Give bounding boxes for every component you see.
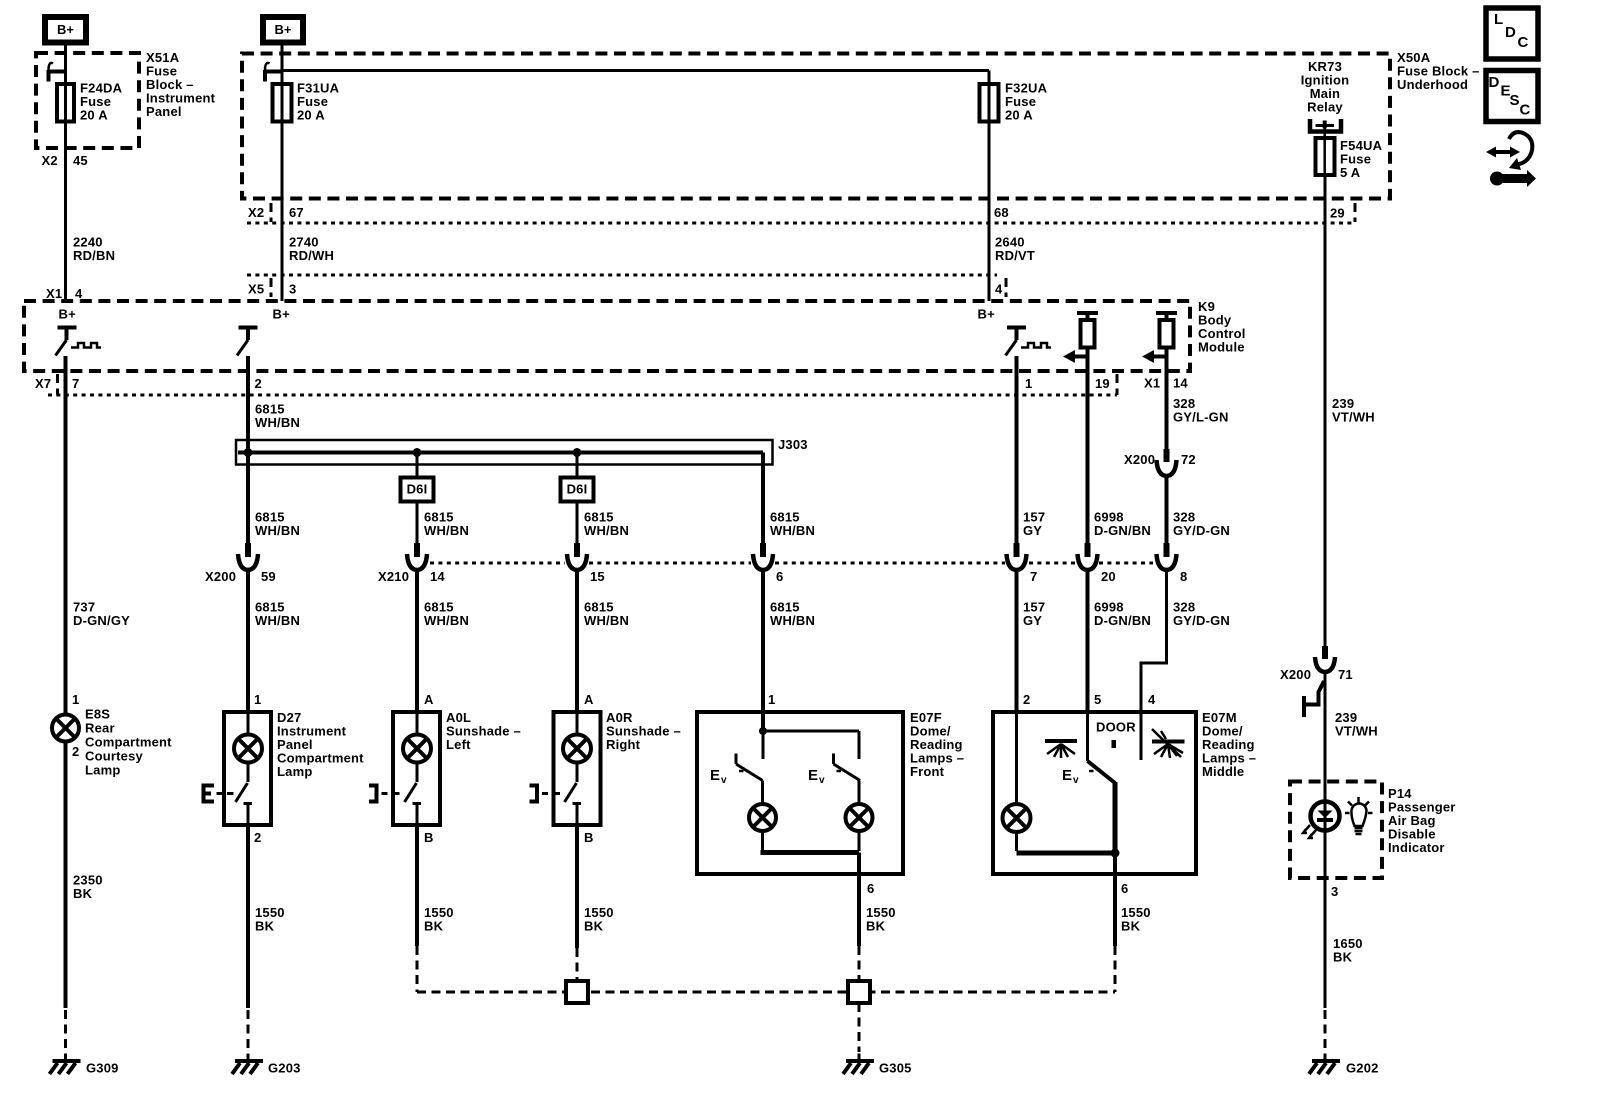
svg-text:68: 68 bbox=[994, 205, 1009, 220]
svg-text:6: 6 bbox=[776, 569, 783, 584]
wire col5 J303 right end down to connector pin 6 bbox=[761, 453, 765, 544]
wire label 1550 BK col3 bbox=[424, 905, 454, 934]
door-jamb bracket symbol at A0R bbox=[530, 786, 561, 802]
E07M pin 4 stub wire bbox=[1140, 712, 1143, 760]
svg-text:20 A: 20 A bbox=[297, 108, 325, 123]
svg-text:D: D bbox=[1505, 24, 1516, 41]
svg-text:E: E bbox=[1062, 767, 1072, 784]
svg-text:2: 2 bbox=[1023, 692, 1030, 707]
E07M illumination rays icon left bbox=[1045, 741, 1077, 758]
wire col9: F54UA to X200-71, circuit 239 bbox=[1324, 175, 1327, 647]
svg-text:E: E bbox=[710, 767, 720, 784]
switch inside A0R bbox=[565, 763, 582, 826]
wire label 2640 RD/VT bbox=[995, 235, 1035, 264]
svg-text:1: 1 bbox=[1025, 376, 1032, 391]
connector row X2: labels 67 68 29 with ticks bbox=[248, 203, 1355, 222]
labels X200 72 bbox=[1124, 452, 1196, 467]
wire col4 connector to lamp A0R bbox=[575, 570, 579, 712]
svg-text:RD/VT: RD/VT bbox=[995, 248, 1035, 263]
svg-text:G202: G202 bbox=[1346, 1061, 1379, 1076]
wire label 1550 BK col2 bbox=[255, 905, 285, 934]
inline connector pin 20 bbox=[1078, 543, 1098, 570]
svg-text:45: 45 bbox=[73, 153, 88, 168]
svg-text:59: 59 bbox=[261, 569, 276, 584]
E07F left door switch Ev bbox=[710, 754, 763, 787]
label A0R Sunshade Right bbox=[606, 710, 681, 752]
svg-text:GY: GY bbox=[1023, 613, 1042, 628]
connector hook in X51A bbox=[49, 63, 66, 82]
wire label 6998 D-GN/BN col7 lower bbox=[1094, 600, 1151, 629]
svg-text:X2: X2 bbox=[42, 153, 58, 168]
switch inside D27 bbox=[236, 763, 253, 826]
ground G203 bbox=[232, 1054, 263, 1075]
wire col8 BCM pin X1-14 to X200-72, circuit 328 bbox=[1165, 371, 1169, 449]
dotted connector line X7 row bbox=[48, 394, 1117, 397]
svg-text:Front: Front bbox=[910, 764, 945, 779]
svg-text:4: 4 bbox=[995, 282, 1003, 297]
wire label 157 GY col6 lower bbox=[1023, 600, 1045, 629]
label K9 Body Control Module bbox=[1198, 299, 1246, 355]
dotted inline-connector row bbox=[430, 562, 1153, 565]
svg-text:v: v bbox=[1073, 775, 1079, 786]
wire label 737 D-GN/GY bbox=[73, 600, 130, 629]
svg-text:WH/BN: WH/BN bbox=[584, 613, 629, 628]
pin labels X2 45 bbox=[42, 153, 88, 168]
svg-text:1: 1 bbox=[768, 692, 775, 707]
E07F bottom bus to pin 6 bbox=[761, 853, 860, 886]
wire label 6815 WH/BN col3 lower bbox=[424, 600, 469, 629]
lamp box D27 bbox=[224, 712, 271, 825]
svg-text:WH/BN: WH/BN bbox=[770, 523, 815, 538]
svg-text:BK: BK bbox=[424, 919, 444, 934]
wire col4 J303 tap to D6I bbox=[576, 453, 579, 478]
svg-text:WH/BN: WH/BN bbox=[424, 523, 469, 538]
dotted connector line X2 row bbox=[247, 222, 1354, 225]
svg-text:BK: BK bbox=[255, 919, 275, 934]
svg-text:14: 14 bbox=[1173, 376, 1188, 391]
E07M pin 6 exit wire bbox=[1113, 853, 1117, 885]
inline connector X200-72 bbox=[1157, 449, 1177, 476]
ground G305 bbox=[843, 1054, 874, 1075]
fuse F32UA bbox=[980, 84, 999, 122]
junction square col4 on ground bus bbox=[566, 981, 588, 1003]
labels X200 59 bbox=[205, 569, 276, 584]
label X50A Fuse Block - Underhood bbox=[1397, 50, 1480, 92]
svg-text:v: v bbox=[721, 775, 727, 786]
svg-text:GY: GY bbox=[1023, 523, 1042, 538]
svg-text:X200: X200 bbox=[205, 569, 236, 584]
svg-text:Right: Right bbox=[606, 737, 641, 752]
svg-text:G203: G203 bbox=[268, 1061, 301, 1076]
svg-text:8: 8 bbox=[1180, 569, 1187, 584]
svg-text:GY/D-GN: GY/D-GN bbox=[1173, 613, 1230, 628]
E07M bottom bus and node bbox=[1017, 849, 1120, 858]
labels X210 14 bbox=[378, 569, 445, 584]
relay KR73 contact symbol bbox=[1310, 119, 1341, 132]
wire label 1650 BK col9 bbox=[1333, 936, 1363, 965]
wire label 6815 WH/BN col2 lower bbox=[255, 600, 300, 629]
fuse F31UA bbox=[273, 84, 292, 122]
svg-text:Left: Left bbox=[446, 737, 471, 752]
wire col5 E07F to ground, circuit 1550 bbox=[857, 885, 861, 946]
svg-text:19: 19 bbox=[1095, 376, 1110, 391]
BCM current-source driver pin 19 bbox=[1063, 313, 1098, 371]
svg-text:Panel: Panel bbox=[146, 104, 182, 119]
label F54UA Fuse 5 A bbox=[1340, 138, 1383, 180]
lamp box A0L bbox=[393, 712, 440, 825]
E07M illumination rays icon right bbox=[1152, 729, 1185, 758]
door-jamb bracket symbol at A0L bbox=[369, 786, 400, 802]
P14 bulb icon with rays bbox=[1345, 797, 1373, 834]
wire label 6815 WH/BN col5 mid bbox=[770, 510, 815, 539]
wire relay to fuse F54UA bbox=[1323, 128, 1326, 175]
svg-text:WH/BN: WH/BN bbox=[424, 613, 469, 628]
svg-text:Rear: Rear bbox=[85, 721, 115, 736]
svg-text:WH/BN: WH/BN bbox=[770, 613, 815, 628]
label E07F Dome Reading Lamps Front bbox=[910, 710, 964, 779]
label X51A Fuse Block - Instrument Panel bbox=[146, 50, 216, 119]
svg-text:BK: BK bbox=[1121, 919, 1141, 934]
wire label 2740 RD/WH bbox=[289, 235, 334, 264]
wire label 328 GY/D-GN col8 lower bbox=[1173, 600, 1230, 629]
dashed wire E07M to ground bus bbox=[1114, 946, 1117, 992]
wire label 328 GY/L-GN col8 upper bbox=[1173, 396, 1229, 425]
dashed wire col2 to ground bbox=[247, 1010, 250, 1052]
wire label 1550 BK col4 bbox=[584, 905, 614, 934]
E07M lamp bbox=[1003, 712, 1031, 851]
lamp assembly box E07F bbox=[697, 712, 903, 874]
wire col6 connector to E07M pin 2 bbox=[1015, 570, 1019, 712]
svg-text:X200: X200 bbox=[1124, 452, 1155, 467]
E07F right door switch Ev bbox=[808, 754, 860, 787]
wire label 239 VT/WH col9 lower bbox=[1335, 710, 1378, 739]
svg-text:G309: G309 bbox=[86, 1061, 119, 1076]
wire label 239 VT/WH col9 upper bbox=[1332, 396, 1375, 425]
svg-text:Relay: Relay bbox=[1307, 100, 1343, 115]
svg-text:5 A: 5 A bbox=[1340, 165, 1361, 180]
dashed wire col9 to ground bbox=[1324, 1010, 1327, 1052]
svg-text:D: D bbox=[1489, 74, 1500, 91]
label F24DA Fuse 20 A bbox=[80, 81, 123, 123]
dashed wire col3 down to ground bus bbox=[416, 946, 419, 992]
svg-text:A: A bbox=[584, 692, 594, 707]
wire col6: F32UA branch down to BCM pin X5-4, circuit 2640 bbox=[988, 71, 991, 302]
svg-text:67: 67 bbox=[289, 205, 304, 220]
svg-text:D6I: D6I bbox=[407, 482, 428, 497]
wire label 157 GY col6 mid bbox=[1023, 510, 1045, 539]
svg-text:D6I: D6I bbox=[567, 482, 588, 497]
svg-text:B+: B+ bbox=[273, 307, 291, 322]
svg-text:5: 5 bbox=[1094, 692, 1101, 707]
svg-text:3: 3 bbox=[1331, 884, 1338, 899]
svg-text:Module: Module bbox=[1198, 340, 1245, 355]
svg-text:Courtesy: Courtesy bbox=[85, 749, 144, 764]
E07M switch to bus thick wire bbox=[1113, 782, 1118, 853]
svg-text:71: 71 bbox=[1338, 667, 1353, 682]
indicator P14 dashed box bbox=[1290, 782, 1382, 879]
wire E07M to ground bus, circuit 1550 bbox=[1113, 885, 1117, 946]
svg-text:B+: B+ bbox=[978, 307, 996, 322]
svg-text:1: 1 bbox=[254, 692, 261, 707]
wire label 6815 WH/BN col4 lower bbox=[584, 600, 629, 629]
label relay KR73 Ignition Main Relay bbox=[1301, 59, 1350, 115]
svg-text:4: 4 bbox=[75, 286, 83, 301]
legend icon box LDC bbox=[1486, 8, 1538, 59]
fuse F54UA bbox=[1316, 138, 1335, 175]
svg-text:Underhood: Underhood bbox=[1397, 77, 1468, 92]
lamp symbol A0R bbox=[563, 712, 591, 763]
wire bus inside X50A to F32UA bbox=[282, 69, 989, 72]
dashed wire col1 to ground bbox=[64, 1010, 67, 1052]
wire col1: B+ to BCM pin X1-4, circuit 2240 bbox=[64, 46, 67, 302]
node dot J303 tap col3 bbox=[413, 448, 422, 457]
svg-text:X5: X5 bbox=[248, 282, 264, 297]
svg-text:BK: BK bbox=[1333, 950, 1353, 965]
svg-text:L: L bbox=[1494, 11, 1503, 28]
svg-text:20: 20 bbox=[1101, 569, 1116, 584]
svg-text:A: A bbox=[424, 692, 434, 707]
dashed wire col5 to junction square bbox=[858, 946, 861, 981]
svg-text:6: 6 bbox=[1121, 881, 1128, 896]
svg-text:J303: J303 bbox=[778, 437, 808, 452]
wire col7 BCM pin 19 to connector pin 20, circuit 6998 bbox=[1086, 371, 1090, 543]
BCM switch col6 with PTC squiggle bbox=[1006, 328, 1052, 372]
ground G202 bbox=[1309, 1054, 1340, 1075]
svg-text:X2: X2 bbox=[248, 205, 264, 220]
switch inside A0L bbox=[405, 763, 422, 826]
svg-text:X210: X210 bbox=[378, 569, 409, 584]
wire col9 X200-71 to P14 pin, circuit 239 bbox=[1324, 672, 1327, 800]
lamp E8S Rear Compartment Courtesy Lamp bbox=[52, 715, 79, 742]
lamp box A0R bbox=[554, 712, 601, 825]
svg-text:3: 3 bbox=[289, 282, 296, 297]
lamp assembly box E07M bbox=[993, 712, 1196, 874]
inline connector X210-14 bbox=[407, 543, 427, 570]
svg-text:RD/WH: RD/WH bbox=[289, 248, 334, 263]
E07F left lamp bbox=[749, 781, 776, 852]
svg-text:20 A: 20 A bbox=[80, 108, 108, 123]
svg-text:D-GN/BN: D-GN/BN bbox=[1094, 523, 1151, 538]
svg-text:BK: BK bbox=[73, 886, 93, 901]
wire label 2240 RD/BN bbox=[73, 235, 115, 264]
svg-text:29: 29 bbox=[1330, 206, 1345, 221]
label F32UA Fuse 20 A bbox=[1005, 81, 1048, 123]
svg-text:GY/D-GN: GY/D-GN bbox=[1173, 523, 1230, 538]
wire col4 A0R to ground bus, circuit 1550 bbox=[575, 825, 579, 948]
wire col1 lamp to ground, circuit 2350 bbox=[64, 742, 68, 1009]
lamp symbol D27 bbox=[234, 712, 262, 763]
splice pack J303 bus bbox=[236, 440, 773, 465]
svg-text:BK: BK bbox=[866, 919, 886, 934]
wire label 328 GY/D-GN col8 mid bbox=[1173, 510, 1230, 539]
svg-text:v: v bbox=[819, 775, 825, 786]
BCM pin row labels X7-7 2 1 19 X1-14 with ticks bbox=[35, 374, 1188, 395]
wire col2 connector to lamp D27 bbox=[246, 570, 250, 712]
svg-text:C: C bbox=[1520, 102, 1531, 119]
wire label 6815 WH/BN col5 lower bbox=[770, 600, 815, 629]
svg-text:D-GN/BN: D-GN/BN bbox=[1094, 613, 1151, 628]
svg-text:B+: B+ bbox=[275, 22, 292, 37]
label F31UA Fuse 20 A bbox=[297, 81, 340, 123]
svg-text:Compartment: Compartment bbox=[85, 735, 172, 750]
fuse block X50A dashed box bbox=[242, 54, 1390, 199]
connector hook in X50A bbox=[265, 63, 282, 82]
svg-text:14: 14 bbox=[430, 569, 445, 584]
fuse F24DA bbox=[57, 84, 74, 122]
svg-text:RD/BN: RD/BN bbox=[73, 248, 115, 263]
BCM high-side switch col1 with PTC squiggle bbox=[56, 328, 102, 372]
inline connector X200-71 bbox=[1315, 646, 1335, 672]
diode block D6I (right) bbox=[561, 478, 594, 502]
label E07M Dome Reading Lamps Middle bbox=[1202, 710, 1256, 779]
P14 LED symbol bbox=[1303, 800, 1340, 1008]
svg-text:GY/L-GN: GY/L-GN bbox=[1173, 410, 1229, 425]
E07M DOOR label and link dash bbox=[1096, 720, 1136, 749]
E07F right lamp bbox=[846, 781, 873, 852]
svg-text:Lamp: Lamp bbox=[85, 763, 120, 778]
power B+ battery symbol 2 bbox=[263, 17, 303, 43]
wire label 6815 WH/BN col2 upper bbox=[255, 402, 300, 431]
junction square col5 on ground bus bbox=[848, 981, 870, 1003]
svg-text:VT/WH: VT/WH bbox=[1332, 410, 1375, 425]
dotted connector line X5 row bbox=[247, 274, 997, 277]
wire col3 A0L to ground bus, circuit 1550 bbox=[415, 825, 419, 946]
wire col4 D6I to connector pin 15 bbox=[576, 502, 579, 544]
legend icon box DESC bbox=[1486, 71, 1538, 122]
wire label 1550 BK E07M bbox=[1121, 905, 1151, 934]
svg-text:2: 2 bbox=[254, 830, 261, 845]
svg-text:6: 6 bbox=[867, 881, 874, 896]
svg-text:E8S: E8S bbox=[85, 707, 110, 722]
BCM switch col2 bbox=[237, 328, 258, 372]
node dot J303 tap col4 bbox=[573, 448, 582, 457]
connector branch hook at X200-71 bbox=[1304, 681, 1324, 717]
svg-text:WH/BN: WH/BN bbox=[255, 523, 300, 538]
label A0L Sunshade Left bbox=[446, 710, 521, 752]
svg-text:B+: B+ bbox=[59, 307, 77, 322]
inline connector pin 6 bbox=[753, 543, 773, 570]
svg-text:X1: X1 bbox=[46, 286, 62, 301]
inline connector X200-59 bbox=[238, 543, 258, 570]
module K9 Body Control Module dashed box bbox=[24, 301, 1190, 371]
wire col2: B+ feed 2 down through F31UA to BCM pin X5-3 bbox=[281, 46, 284, 302]
E07M door switch Ev bbox=[1062, 712, 1115, 786]
svg-text:X7: X7 bbox=[35, 376, 51, 391]
svg-text:E: E bbox=[808, 767, 818, 784]
BCM current-source driver pin X1-14 bbox=[1142, 313, 1177, 371]
dashed wire col4 to junction square bbox=[576, 948, 579, 981]
legend arrows icon bbox=[1486, 132, 1536, 187]
diode block D6I (left) bbox=[401, 478, 434, 502]
wire col3 connector to lamp A0L bbox=[415, 570, 419, 712]
svg-text:Middle: Middle bbox=[1202, 764, 1244, 779]
svg-text:72: 72 bbox=[1181, 452, 1196, 467]
label E8S Rear Compartment Courtesy Lamp bbox=[85, 707, 172, 778]
svg-text:X1: X1 bbox=[1144, 376, 1160, 391]
svg-text:4: 4 bbox=[1148, 692, 1156, 707]
svg-text:1: 1 bbox=[72, 692, 79, 707]
wire label 6815 WH/BN col4 mid bbox=[584, 510, 629, 539]
wire label 1550 BK col5 bbox=[866, 905, 896, 934]
dashed ground bus wire bbox=[417, 991, 1115, 994]
svg-text:C: C bbox=[1518, 34, 1529, 51]
E07F entry wire and branch node bbox=[759, 712, 859, 759]
wire col2 D27 to ground, circuit 1550 bbox=[246, 825, 250, 1008]
svg-text:7: 7 bbox=[1030, 569, 1037, 584]
dashed wire below junction square to G305 bbox=[858, 1003, 861, 1052]
svg-text:WH/BN: WH/BN bbox=[255, 613, 300, 628]
svg-text:Lamp: Lamp bbox=[277, 764, 312, 779]
svg-text:2: 2 bbox=[255, 376, 262, 391]
wire col1 below BCM to lamp E8S, circuit 737 bbox=[64, 371, 68, 715]
svg-text:VT/WH: VT/WH bbox=[1335, 724, 1378, 739]
svg-text:DOOR: DOOR bbox=[1096, 720, 1136, 735]
wire col7 connector to E07M pin 5 bbox=[1086, 570, 1090, 712]
wire col8 X200-72 to connector pin 8, circuit 328 bbox=[1165, 476, 1169, 543]
lamp symbol A0L bbox=[403, 712, 431, 763]
svg-text:G305: G305 bbox=[879, 1061, 912, 1076]
svg-text:BK: BK bbox=[584, 919, 604, 934]
svg-text:WH/BN: WH/BN bbox=[584, 523, 629, 538]
inline connector pin 15 bbox=[567, 543, 587, 570]
node dot J303 tap col2 bbox=[244, 448, 253, 457]
label D27 Instrument Panel Compartment Lamp bbox=[277, 710, 364, 779]
wire label 2350 BK bbox=[73, 873, 103, 902]
svg-text:D-GN/GY: D-GN/GY bbox=[73, 613, 130, 628]
wire label 6815 WH/BN col2 mid bbox=[255, 510, 300, 539]
wire col3 J303 tap to D6I bbox=[416, 453, 419, 478]
power B+ battery symbol 1 bbox=[45, 17, 86, 43]
wire col5 connector to E07F pin 1 bbox=[761, 570, 765, 712]
pin labels X1 4 bbox=[46, 286, 83, 301]
labels X200 71 bbox=[1280, 667, 1353, 682]
svg-text:B+: B+ bbox=[57, 22, 74, 37]
wire col8 connector down with jog to E07M pin 4 bbox=[1141, 570, 1167, 712]
svg-text:2: 2 bbox=[72, 744, 79, 759]
ground G309 bbox=[50, 1054, 81, 1075]
wire label 6998 D-GN/BN col7 mid bbox=[1094, 510, 1151, 539]
wire label 6815 WH/BN col3 mid bbox=[424, 510, 469, 539]
connector row X5: labels 3 and 4 with ticks bbox=[248, 278, 1006, 297]
svg-text:15: 15 bbox=[590, 569, 605, 584]
label P14 Passenger Air Bag Disable Indicator bbox=[1388, 786, 1456, 855]
svg-text:B: B bbox=[424, 830, 434, 845]
svg-text:WH/BN: WH/BN bbox=[255, 415, 300, 430]
wire col6 BCM pin 1 to connector pin 7, circuit 157 bbox=[1015, 371, 1019, 543]
svg-text:S: S bbox=[1510, 92, 1520, 109]
svg-text:X200: X200 bbox=[1280, 667, 1311, 682]
wire col2 BCM pin 2 to J303 bbox=[246, 371, 250, 543]
inline connector pin 7 bbox=[1007, 543, 1027, 570]
wire col3 D6I to connector X210-14 bbox=[416, 502, 419, 544]
inline connector pin 8 bbox=[1157, 543, 1177, 570]
svg-text:7: 7 bbox=[72, 376, 79, 391]
door-jamb bracket symbol at D27 bbox=[204, 786, 234, 802]
fuse block X51A dashed box bbox=[36, 53, 139, 148]
svg-text:20 A: 20 A bbox=[1005, 108, 1033, 123]
svg-text:Indicator: Indicator bbox=[1388, 840, 1445, 855]
svg-text:B: B bbox=[584, 830, 594, 845]
